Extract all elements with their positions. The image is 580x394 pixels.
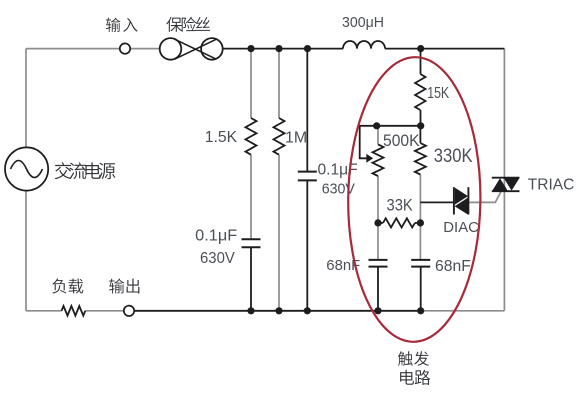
svg-text:TRIAC: TRIAC xyxy=(528,176,575,193)
svg-text:1M: 1M xyxy=(285,130,307,147)
svg-text:630V: 630V xyxy=(322,180,355,197)
svg-text:0.1μF: 0.1μF xyxy=(195,228,237,245)
svg-text:500K: 500K xyxy=(383,131,420,150)
svg-text:630V: 630V xyxy=(200,250,235,267)
svg-text:DIAC: DIAC xyxy=(443,219,479,236)
svg-text:33K: 33K xyxy=(387,195,414,214)
svg-text:0.1μF: 0.1μF xyxy=(318,161,358,178)
svg-text:1.5K: 1.5K xyxy=(205,129,238,146)
svg-text:15K: 15K xyxy=(427,85,450,102)
svg-text:330K: 330K xyxy=(434,146,473,167)
svg-text:68nF: 68nF xyxy=(435,258,471,275)
svg-text:300μH: 300μH xyxy=(342,14,384,31)
